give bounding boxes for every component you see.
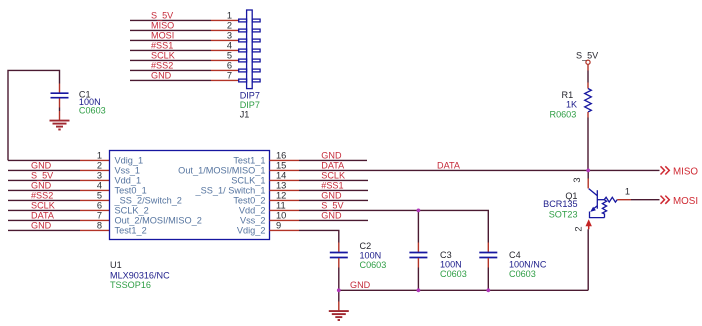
svg-text:10: 10 bbox=[276, 210, 286, 220]
junction GND rail / C3 bbox=[417, 288, 421, 292]
wire U1 pin15 net DATA long bbox=[299, 169, 660, 171]
svg-text:C2: C2 bbox=[360, 241, 372, 251]
junction S_5V / C3 bbox=[417, 209, 421, 213]
svg-text:BCR135: BCR135 bbox=[543, 199, 577, 209]
svg-text:S_5V: S_5V bbox=[151, 10, 174, 20]
wire J1 pin1 net S_5V bbox=[130, 19, 211, 21]
connector J1 body bbox=[239, 10, 260, 89]
svg-text:1: 1 bbox=[97, 150, 102, 160]
svg-text:TSSOP16: TSSOP16 bbox=[110, 280, 151, 290]
svg-text:MLX90316/NC: MLX90316/NC bbox=[110, 270, 170, 280]
wire U1 pin13 net #SS1 bbox=[299, 189, 368, 191]
wire U1 pin9 to C2 bbox=[299, 230, 339, 242]
supply symbol S_5V bbox=[576, 50, 599, 70]
svg-text:GND: GND bbox=[31, 220, 52, 230]
svg-text:S_5V: S_5V bbox=[31, 170, 54, 180]
svg-text:1: 1 bbox=[625, 187, 630, 197]
capacitor C3 top pin bbox=[417, 243, 419, 252]
wire base to MOSI arrow bbox=[631, 199, 660, 201]
svg-text:14: 14 bbox=[276, 170, 286, 180]
svg-text:100N/NC: 100N/NC bbox=[509, 260, 547, 270]
svg-text:16: 16 bbox=[276, 150, 286, 160]
svg-text:#SS2: #SS2 bbox=[31, 190, 53, 200]
wire from left rail to C1 top bbox=[8, 70, 60, 160]
capacitor C4 top pin bbox=[487, 243, 489, 252]
svg-text:_SS_2/Switch_2: _SS_2/Switch_2 bbox=[114, 196, 182, 206]
svg-text:S_5V: S_5V bbox=[576, 50, 599, 60]
svg-text:MISO: MISO bbox=[673, 167, 698, 178]
wire U1 pin5 net #SS2 bbox=[8, 199, 80, 201]
svg-text:1K: 1K bbox=[566, 100, 577, 110]
capacitor C1 top pin bbox=[59, 84, 61, 93]
svg-text:15: 15 bbox=[276, 160, 286, 170]
svg-text:GND: GND bbox=[321, 210, 342, 220]
svg-text:7: 7 bbox=[97, 210, 102, 220]
ground symbol below C1 bbox=[50, 111, 70, 130]
svg-text:Test1_1: Test1_1 bbox=[233, 156, 265, 166]
svg-text:11: 11 bbox=[276, 200, 286, 210]
svg-text:SCLK_1: SCLK_1 bbox=[231, 176, 265, 186]
svg-text:DATA: DATA bbox=[31, 210, 55, 220]
svg-text:4: 4 bbox=[97, 180, 102, 190]
op-amp U1 body rectangle bbox=[110, 151, 270, 240]
svg-text:DATA: DATA bbox=[321, 160, 345, 170]
port arrow MISO bbox=[661, 166, 699, 177]
capacitor C1 bottom pin bbox=[59, 98, 61, 107]
wire J1 pin4 net #SS1 bbox=[130, 49, 211, 51]
wire emitter to GND rail bbox=[587, 229, 589, 290]
svg-text:2: 2 bbox=[97, 160, 102, 170]
wire J1 pin7 net GND bbox=[130, 79, 211, 81]
U1 right pins 16-9 bbox=[270, 160, 300, 230]
wire U1 pin10 net GND bbox=[299, 219, 368, 221]
svg-text:GND: GND bbox=[31, 180, 52, 190]
capacitor C3 plates bbox=[409, 253, 427, 258]
junction GND rail / C2 bbox=[337, 288, 341, 292]
svg-text:#SS1: #SS1 bbox=[321, 180, 343, 190]
svg-text:2: 2 bbox=[574, 226, 584, 231]
wire C1 to ground bbox=[59, 108, 61, 112]
wire U1 pin11 net S_5V to C4 bbox=[299, 210, 488, 242]
svg-text:7: 7 bbox=[227, 70, 232, 80]
wire C3 to GND rail bbox=[417, 268, 419, 291]
svg-text:Out_1/MOSI/MISO_1: Out_1/MOSI/MISO_1 bbox=[178, 166, 265, 176]
wire U1 pin16 net GND bbox=[299, 159, 367, 161]
svg-text:Vdd_1: Vdd_1 bbox=[115, 176, 142, 186]
svg-text:100N: 100N bbox=[440, 259, 462, 269]
Q1 pin 2 emitter arrow bbox=[586, 219, 592, 229]
svg-text:Vdig_2: Vdig_2 bbox=[237, 226, 266, 236]
svg-text:DATA: DATA bbox=[437, 160, 461, 170]
wire C2 to GND rail bbox=[338, 268, 340, 291]
svg-text:8: 8 bbox=[97, 220, 102, 230]
svg-text:Test0_1: Test0_1 bbox=[115, 186, 147, 196]
svg-text:Out_2/MOSI/MISO_2: Out_2/MOSI/MISO_2 bbox=[115, 216, 202, 226]
capacitor C3 bottom pin bbox=[417, 258, 419, 267]
svg-text:MOSI: MOSI bbox=[151, 30, 174, 40]
svg-text:R0603: R0603 bbox=[550, 109, 577, 119]
svg-text:9: 9 bbox=[276, 220, 281, 230]
svg-text:Vss_2: Vss_2 bbox=[240, 216, 266, 226]
U1 left pins 1-8 bbox=[80, 160, 110, 230]
svg-text:GND: GND bbox=[321, 150, 342, 160]
svg-text:2: 2 bbox=[227, 20, 232, 30]
svg-text:13: 13 bbox=[276, 180, 286, 190]
svg-text:5: 5 bbox=[227, 50, 232, 60]
capacitor C4 plates bbox=[479, 253, 497, 258]
svg-text:6: 6 bbox=[97, 200, 102, 210]
capacitor C4 bottom pin bbox=[487, 258, 489, 267]
svg-text:SOT23: SOT23 bbox=[549, 210, 578, 220]
svg-text:_SS_1/ Switch_1: _SS_1/ Switch_1 bbox=[195, 186, 266, 196]
svg-text:12: 12 bbox=[276, 190, 286, 200]
wire J1 pin6 net #SS2 bbox=[130, 69, 211, 71]
svg-text:Test1_2: Test1_2 bbox=[115, 226, 147, 236]
svg-text:C0603: C0603 bbox=[360, 260, 387, 270]
svg-text:GND: GND bbox=[151, 70, 172, 80]
svg-text:R1: R1 bbox=[562, 90, 574, 100]
svg-text:3: 3 bbox=[97, 170, 102, 180]
transistor Q1 symbol bbox=[589, 189, 618, 218]
svg-text:C0603: C0603 bbox=[79, 105, 106, 115]
svg-text:MOSI: MOSI bbox=[673, 196, 698, 207]
capacitor C2 plates bbox=[330, 253, 348, 258]
junction DATA / R1 / Q1 bbox=[586, 169, 590, 173]
svg-text:C4: C4 bbox=[509, 250, 521, 260]
svg-text:U1: U1 bbox=[110, 260, 122, 270]
svg-text:4: 4 bbox=[227, 40, 232, 50]
svg-text:#SS2: #SS2 bbox=[151, 60, 173, 70]
svg-text:SCLK: SCLK bbox=[31, 200, 55, 210]
svg-text:Test0_2: Test0_2 bbox=[233, 196, 265, 206]
wire collector from junction bbox=[587, 170, 589, 178]
svg-text:SCLK_2: SCLK_2 bbox=[115, 206, 149, 216]
connector J1 pins (bright pin segments) bbox=[211, 20, 239, 80]
svg-text:Vdd_2: Vdd_2 bbox=[239, 206, 266, 216]
Q1 pin 1 base stub bbox=[617, 199, 631, 201]
ground symbol below GND rail bbox=[329, 302, 349, 321]
resistor R1 top pin bbox=[587, 83, 589, 89]
svg-text:MISO: MISO bbox=[151, 20, 174, 30]
wire U1 pin1 bbox=[8, 159, 80, 161]
capacitor C2 top pin bbox=[338, 243, 340, 252]
U1 pin numbers left 1-8 bbox=[97, 150, 102, 230]
capacitor C2 bottom pin bbox=[338, 258, 340, 267]
resistor R1 zigzag bbox=[585, 89, 592, 113]
wire U1 pin4 net GND bbox=[8, 189, 80, 191]
wire U1 pin7 net DATA bbox=[8, 219, 80, 221]
svg-text:GND: GND bbox=[31, 160, 52, 170]
svg-text:SCLK: SCLK bbox=[151, 50, 175, 60]
wire GND rail to ground symbol bbox=[338, 290, 340, 301]
svg-text:GND: GND bbox=[350, 280, 371, 290]
junction GND rail / C4 bbox=[486, 288, 490, 292]
svg-text:3: 3 bbox=[572, 177, 582, 182]
wire C3 top to S_5V rail bbox=[417, 210, 419, 242]
wire J1 pin2 net MISO bbox=[130, 29, 211, 31]
svg-text:Vss_1: Vss_1 bbox=[115, 166, 141, 176]
wire R1 to DATA junction bbox=[587, 118, 589, 171]
svg-text:C0603: C0603 bbox=[440, 269, 467, 279]
svg-text:SCLK: SCLK bbox=[321, 170, 345, 180]
U1 pin numbers right 16-9 bbox=[276, 150, 286, 230]
wire C4 to GND rail bbox=[487, 268, 489, 291]
svg-text:Vdig_1: Vdig_1 bbox=[115, 156, 144, 166]
Q1 pin 3 collector stub bbox=[587, 179, 589, 189]
svg-text:6: 6 bbox=[227, 60, 232, 70]
wire GND rail bbox=[339, 289, 588, 291]
wire U1 pin8 net GND bbox=[8, 229, 80, 231]
svg-text:#SS1: #SS1 bbox=[151, 40, 173, 50]
svg-text:3: 3 bbox=[227, 30, 232, 40]
capacitor C1 plates bbox=[51, 93, 69, 98]
wire U1 pin12 net GND bbox=[299, 199, 368, 201]
svg-text:C0603: C0603 bbox=[509, 269, 536, 279]
wire J1 pin5 net SCLK bbox=[130, 59, 211, 61]
wire U1 pin3 net S_5V bbox=[8, 179, 80, 181]
svg-text:GND: GND bbox=[321, 190, 342, 200]
wire U1 pin14 net SCLK bbox=[299, 179, 368, 181]
wire U1 pin6 net SCLK bbox=[8, 209, 80, 211]
svg-text:5: 5 bbox=[97, 190, 102, 200]
svg-text:S_5V: S_5V bbox=[321, 200, 344, 210]
svg-text:J1: J1 bbox=[240, 110, 250, 120]
svg-text:1: 1 bbox=[227, 10, 232, 20]
resistor R1 bottom pin bbox=[587, 112, 589, 118]
svg-text:DIP7: DIP7 bbox=[240, 91, 260, 101]
wire U1 pin2 net GND bbox=[8, 169, 80, 171]
wire supply to R1 bbox=[587, 71, 589, 83]
port arrow MOSI bbox=[661, 196, 699, 207]
wire J1 pin3 net MOSI bbox=[130, 39, 211, 41]
